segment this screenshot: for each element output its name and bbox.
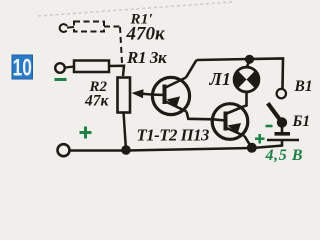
R2 wiper arrow to T1 base [132,89,154,98]
label R2 [89,79,108,95]
plus polarity mark near battery (green) [255,134,265,144]
minus polarity mark (green) [55,78,67,81]
battery B1 negative plate (short thick) [275,132,291,136]
svg-text:4,5 В: 4,5 В [265,147,304,164]
wire battery to ground rail [281,140,284,147]
input terminal top (to R1') [60,24,67,32]
wire switch to battery [281,126,284,132]
label R1' [130,12,154,28]
lamp L1 [234,62,259,92]
label R1 3k [126,48,167,67]
switch V1 bottom contact [277,117,287,127]
svg-text:47к: 47к [84,93,110,110]
transistor T2 (PNP) [212,104,248,140]
switch V1 lever [268,103,281,120]
wire R1 to R2 top [109,66,124,76]
faint page rule top [38,2,232,16]
svg-text:В1: В1 [294,78,313,95]
node R2/rail junction [121,145,131,155]
minus polarity mark near switch (green) [266,125,273,128]
wire R2 bottom to ground rail [124,112,126,147]
battery B1 positive plate (long thin) [267,139,299,142]
wire terminal to R1' [67,26,74,29]
bottom terminal (plus) [58,144,70,156]
wire terminal to R1 [65,67,74,68]
node lamp/top-rail junction [245,55,254,64]
label 47k [84,93,110,110]
wire T2 emitter to rail [245,136,252,148]
top rail (minus bus) [197,59,284,89]
switch V1 top contact [277,89,286,98]
bottom rail (plus bus) [69,146,283,151]
label L1 [209,69,231,89]
input terminal bottom (to R1) [55,63,65,73]
svg-text:10: 10 [13,55,32,81]
potentiometer R2 body [118,78,131,113]
node T2 emitter/rail junction [247,143,257,153]
item number 10 badge [12,55,33,81]
svg-text:R1 3к: R1 3к [126,48,167,67]
wire T1 collector to top rail [186,60,197,78]
plus polarity mark bottom-left (green) [80,127,92,139]
svg-text:Л1: Л1 [209,69,231,89]
svg-text:Б1: Б1 [292,113,311,130]
svg-text:Т1-Т2 П13: Т1-Т2 П13 [137,126,210,145]
label B1 (battery) [292,113,311,130]
wire T2 collector to lamp [244,92,247,107]
wire T1 emitter to T2 base [187,112,214,120]
wire R1' to junction (dashed) [104,27,122,64]
resistor R1' (dashed, optional) [74,22,104,32]
resistor R1 [74,61,109,73]
svg-text:470к: 470к [126,24,167,45]
label 4,5 V (green) [265,147,304,164]
label T1-T2 P13 [137,126,210,145]
transistor T1 (PNP) [152,77,189,114]
label V1 [294,78,313,95]
label 470k [126,24,167,45]
paper background [0,0,320,176]
